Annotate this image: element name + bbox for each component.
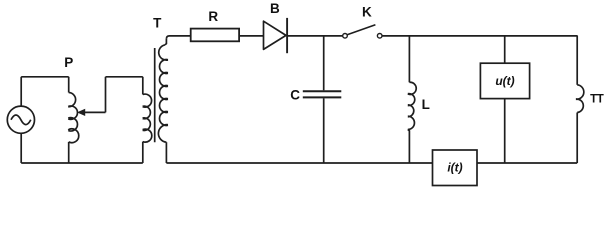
svg-text:L: L xyxy=(422,97,430,112)
resistor R xyxy=(191,29,239,42)
switch K right contact xyxy=(377,34,382,39)
switch K left contact xyxy=(343,34,348,39)
wire source bottom lead xyxy=(20,133,22,163)
wire T secondary top lead xyxy=(165,39,167,45)
capacitor C bottom plate xyxy=(303,96,342,98)
wire bottom rail right part xyxy=(477,162,577,164)
diode B triangle xyxy=(264,21,287,49)
svg-text:K: K xyxy=(362,5,372,20)
AC source G1 xyxy=(7,106,34,133)
wire C top xyxy=(323,35,325,90)
diode B cathode bar xyxy=(286,18,288,53)
svg-text:i(t): i(t) xyxy=(447,160,462,174)
svg-text:T: T xyxy=(153,15,162,30)
wire R to diode xyxy=(239,35,263,37)
wire bottom-left rail xyxy=(21,162,143,164)
wire u(t) top xyxy=(504,35,506,63)
wire P bottom lead xyxy=(68,142,70,163)
tap arrow on P xyxy=(78,109,85,115)
svg-text:TT: TT xyxy=(590,93,604,105)
wire switch to right rail xyxy=(382,35,577,37)
capacitor C top plate xyxy=(303,90,342,92)
wire u(t) bottom xyxy=(504,99,506,163)
transformer T core xyxy=(154,48,156,142)
svg-text:P: P xyxy=(64,55,73,70)
wire secondary to R xyxy=(166,36,190,39)
svg-text:C: C xyxy=(290,87,300,102)
sine wave inside source xyxy=(11,115,31,125)
svg-text:B: B xyxy=(270,1,280,16)
transformer T primary coil xyxy=(143,94,152,142)
voltmeter u(t) box xyxy=(480,63,529,98)
switch K lever xyxy=(348,25,376,35)
transducer TT coil xyxy=(576,85,584,113)
wire bottom rail left part xyxy=(166,162,432,164)
svg-text:R: R xyxy=(208,9,218,24)
wire P top lead xyxy=(68,77,70,93)
wire T secondary bottom lead xyxy=(165,142,167,163)
wire C bottom xyxy=(323,98,325,163)
wire tap vertical xyxy=(105,77,107,113)
wire L bottom xyxy=(408,130,410,164)
wire tap to transformer xyxy=(106,76,143,78)
wire T primary bottom lead xyxy=(142,142,144,163)
ammeter i(t) box xyxy=(433,150,478,186)
transformer T secondary coil xyxy=(158,45,168,142)
wire diode to switch xyxy=(287,35,342,37)
wire source top lead xyxy=(20,77,22,107)
wire top-left rail xyxy=(21,76,68,78)
autotransformer P coil xyxy=(68,93,79,143)
wire right rail top xyxy=(576,35,578,84)
wire right rail bottom xyxy=(576,113,578,164)
wire tap horizontal xyxy=(84,111,105,113)
wire T primary top lead xyxy=(142,77,144,95)
inductor L coil xyxy=(408,82,416,129)
wire L top xyxy=(408,35,410,82)
svg-text:u(t): u(t) xyxy=(495,74,514,88)
